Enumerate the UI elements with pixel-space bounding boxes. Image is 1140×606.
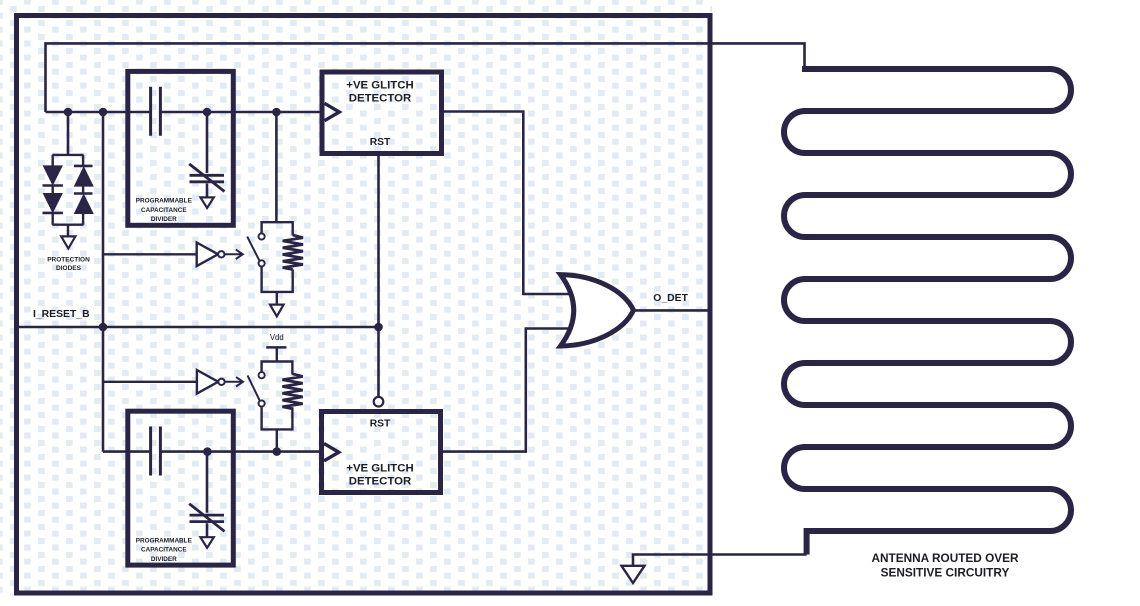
arrow to switch lower: [225, 381, 241, 383]
wire I_RESET_B: [19, 326, 379, 329]
svg-text:DIVIDER: DIVIDER: [151, 216, 177, 223]
wire detector upper output to OR: [442, 112, 579, 295]
+VE glitch detector U1 (upper): [322, 72, 442, 154]
wire inverter input upper: [103, 253, 197, 255]
svg-text:DIODES: DIODES: [56, 265, 82, 272]
node I_RESET_B dot E: [99, 323, 108, 332]
arrow to switch upper: [225, 253, 241, 255]
diode D1b: [43, 194, 62, 213]
antenna meander: [784, 66, 1071, 555]
svg-text:DETECTOR: DETECTOR: [349, 475, 411, 487]
svg-text:O_DET: O_DET: [653, 293, 688, 304]
wire diode ground stem: [67, 225, 69, 236]
wire varcap stem: [206, 112, 209, 197]
svg-text:ANTENNA ROUTED OVER: ANTENNA ROUTED OVER: [871, 551, 1019, 565]
box detector upper: [322, 72, 442, 154]
box PCD: [128, 71, 234, 225]
wire diode top rail: [52, 154, 83, 156]
node lower bus dot H: [273, 447, 282, 456]
capacitor C1 plates: [151, 87, 161, 136]
node bus dot D: [272, 108, 281, 117]
switch S2 + coil L2 (lower, Vdd pull-up): [248, 347, 303, 451]
wire inverter input lower: [103, 381, 197, 383]
ground arrow diodes: [61, 236, 75, 248]
svg-text:PROGRAMMABLE: PROGRAMMABLE: [136, 198, 193, 205]
inverter U5 (upper): [103, 243, 243, 267]
node bus dot C: [203, 108, 212, 117]
diode D1d: [74, 192, 93, 195]
wire diode left branch: [52, 155, 54, 225]
node bus dot A: [64, 108, 73, 117]
diode D1a: [43, 166, 62, 185]
inverter triangle lower: [197, 370, 218, 394]
wire antenna return: [633, 555, 807, 566]
inverter triangle upper: [197, 243, 218, 267]
svg-text:+VE GLITCH: +VE GLITCH: [346, 462, 413, 474]
varcap C2 plates: [190, 175, 225, 182]
svg-text:CAPACITANCE: CAPACITANCE: [141, 207, 187, 214]
wire detector lower output to OR: [441, 329, 579, 452]
wire O_DET output: [634, 309, 712, 312]
coil L1: [283, 235, 303, 270]
diode D1c: [74, 165, 93, 168]
inverter U6 (lower): [103, 370, 243, 394]
wire lower bus left segment: [103, 450, 149, 453]
svg-text:Vdd: Vdd: [270, 333, 284, 342]
wire lower bus right segment: [162, 450, 321, 453]
wire switch feed upper: [275, 112, 278, 222]
switch contact lower top: [259, 372, 265, 378]
node lower bus dot G: [203, 447, 212, 456]
svg-text:+VE GLITCH: +VE GLITCH: [346, 79, 413, 91]
svg-text:DETECTOR: DETECTOR: [349, 93, 411, 105]
programmable capacitance divider U4 (lower): [128, 411, 234, 565]
box detector lower: [322, 412, 441, 493]
inverter bubble lower: [218, 379, 224, 385]
wire top feed to antenna: [46, 43, 805, 112]
clock chevron lower: [324, 444, 339, 461]
svg-text:RST: RST: [370, 418, 391, 429]
wire diode right branch: [82, 155, 84, 225]
switch contact lower bottom: [259, 400, 265, 406]
svg-text:RST: RST: [370, 137, 391, 148]
arrowhead upper: [236, 250, 243, 259]
switch S1 + coil L1 (upper): [247, 112, 303, 316]
Vdd bar: [266, 346, 286, 349]
wire switch frame upper: [262, 222, 293, 304]
RST bubble lower: [374, 397, 384, 407]
+VE glitch detector U3 (lower): [322, 397, 441, 493]
varcap diagonal: [189, 164, 224, 192]
ground arrow switch upper: [270, 305, 284, 317]
node bus dot B: [99, 108, 108, 117]
or-gate U7: [561, 275, 634, 346]
svg-text:SENSITIVE CIRCUITRY: SENSITIVE CIRCUITRY: [881, 566, 1010, 580]
wire top bus right segment: [162, 111, 322, 114]
node I_RESET_B dot F: [374, 323, 383, 332]
chip boundary box: [17, 16, 711, 594]
wire diode feed: [67, 112, 70, 155]
programmable capacitance divider U2 (upper): [128, 71, 234, 225]
wire top bus left segment: [46, 111, 150, 114]
inverter bubble upper: [218, 251, 224, 257]
clock chevron upper: [325, 103, 340, 120]
coil L2: [282, 374, 302, 409]
arrowhead lower: [236, 377, 243, 386]
dotted background field: [0, 0, 712, 595]
switch contact upper top: [259, 233, 265, 239]
switch lever lower: [248, 375, 260, 400]
svg-text:I_RESET_B: I_RESET_B: [33, 309, 90, 320]
wire RST vertical lower: [377, 327, 380, 397]
antenna port triangle: [622, 566, 645, 583]
switch lever upper: [247, 237, 259, 261]
ground arrow varcap: [200, 197, 213, 208]
wire left vertical bus: [102, 112, 105, 452]
wire switch frame lower: [262, 362, 293, 452]
wire RST vertical upper: [377, 156, 380, 327]
switch contact upper bottom: [259, 260, 265, 266]
protection diodes D1 cluster: [43, 112, 94, 249]
svg-text:PROTECTION: PROTECTION: [47, 256, 90, 263]
wire diode bottom rail: [52, 223, 83, 225]
wire Vdd stem: [276, 347, 278, 361]
